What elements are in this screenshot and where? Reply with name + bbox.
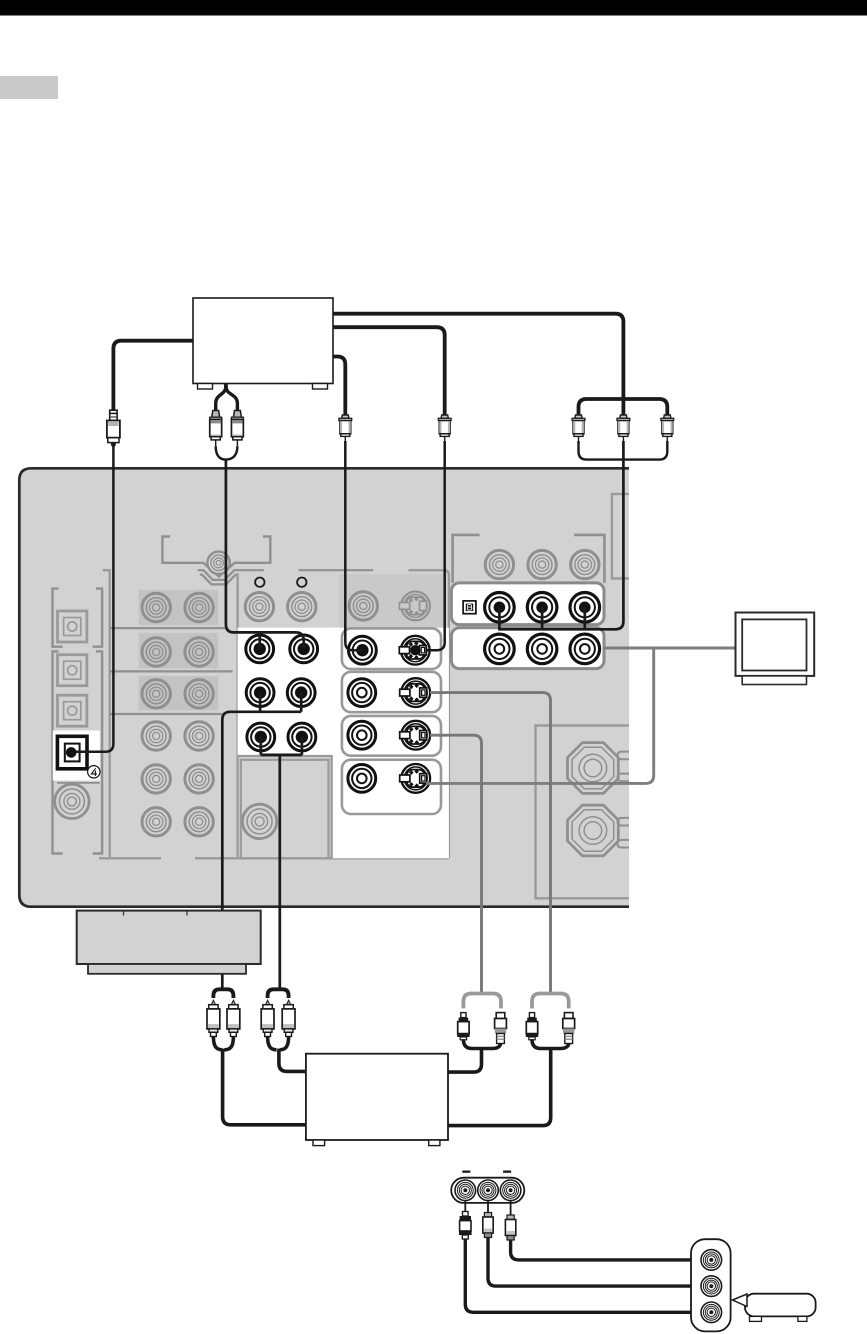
component group box B (connected) (451, 583, 604, 625)
wire: DVD component video cable to triple plug group (333, 314, 623, 416)
wire: adapter plug2 to right plate jack2 (488, 1238, 711, 1286)
AV group row1 jacks (connected) (349, 636, 377, 664)
sub pre-out gray jack left (55, 784, 89, 818)
darker area behind left input grid row 2 (139, 633, 219, 669)
wire: monitor out to TV (604, 647, 736, 650)
chevron channel upper line (198, 570, 264, 580)
pair 2 plugs (261, 1000, 274, 1036)
adapter plug 3 (505, 1215, 515, 1240)
DVD player left foot (198, 384, 213, 390)
pair 1 bracket (213, 989, 233, 998)
wire: adapter plug3 to right plate jack1 (511, 1240, 711, 1260)
wire: DVD audio pair stub from box bottom (224, 384, 228, 391)
center section left frame line (236, 573, 238, 858)
terminal B tabs (618, 818, 630, 826)
audio plug L (down) (210, 411, 222, 447)
wire: pair1 plugs merge and run to VCR (213, 1037, 306, 1125)
VCR box (306, 1054, 448, 1140)
right jack plate (691, 1239, 731, 1331)
AV group row3 jacks (348, 721, 376, 749)
center gray jack pair above DVD audio (245, 593, 273, 621)
wire: monitor out branch to s-video row4 (426, 648, 654, 783)
coaxial digital jack (207, 552, 229, 574)
AV group box row4 (342, 760, 441, 814)
wire: split to left audio plug (216, 386, 226, 411)
left digital-in bracket upper right (93, 589, 103, 647)
circled 4 label (88, 766, 100, 778)
speaker terminal octagon B (568, 805, 619, 856)
separator under optical (57, 782, 100, 784)
speaker terminal octagon A (568, 743, 619, 794)
left column frame line (103, 570, 110, 858)
wire: component cable into B jacks (499, 441, 623, 629)
left digital-in bracket upper left (53, 589, 63, 647)
wire: audio pair pin loop (216, 446, 238, 459)
AV group box row1 (DVD in, connected) (342, 628, 441, 669)
component plug Pb (617, 415, 630, 441)
wire: DVD optical out, left heavy cable (113, 341, 193, 411)
optical plug (down) on left cable (107, 410, 120, 446)
group 4 gray bracket (532, 994, 569, 1009)
gray component jack row (485, 550, 513, 578)
wire: adapter plug1 to right plate jack3 (465, 1239, 711, 1312)
optical jack black (connected) (57, 736, 87, 769)
optical square jacks column (57, 611, 86, 726)
wire: triple plug bottom loop bracket (579, 441, 668, 460)
wire: DVD video out cable (333, 357, 345, 416)
adapter plug 1 (459, 1212, 472, 1240)
VCR right foot (429, 1140, 440, 1146)
adapter jacks (455, 1180, 476, 1201)
balloon feet (750, 1316, 762, 1321)
component plug Pr (661, 415, 674, 441)
group 3 gray bracket (463, 994, 501, 1009)
receiver rear panel body (18, 467, 629, 908)
wire: group3 loop and run to VCR (448, 1039, 501, 1072)
center separator segment (299, 569, 374, 571)
wire: triple plug top bracket (579, 399, 668, 416)
darker area behind DVD gray jack row (339, 574, 446, 628)
terminal A tabs (618, 752, 630, 760)
balloon device box (745, 1294, 816, 1317)
section bottom line (99, 857, 161, 859)
wire: s-video row2 to VCR group4 (430, 693, 551, 994)
balloon pointer (733, 1294, 748, 1307)
VCR left foot (313, 1140, 325, 1146)
left digital-in bracket lower left (53, 651, 63, 853)
AV group row4 jacks (348, 765, 376, 793)
DVD player right foot (313, 384, 328, 390)
left digital-in bracket lower right (93, 651, 103, 853)
label B (463, 601, 476, 614)
video plug (down) (339, 415, 352, 441)
subwoofer bottom bar (88, 964, 246, 974)
leader lines to plugs (465, 1201, 510, 1216)
chevron channel lower line (200, 574, 236, 584)
minus mark 1 (462, 1171, 470, 1173)
wire: group4 loop and run to VCR (448, 1039, 569, 1125)
separator line row1/2 (110, 627, 226, 629)
component B jacks (connected) (485, 593, 515, 623)
wire: drop to Pr jack (583, 607, 586, 629)
separator line row2/3 (110, 670, 233, 672)
component monitor out jacks (485, 634, 515, 664)
gray video jack row above AV groups (349, 592, 377, 620)
audio plug R (down) (231, 411, 243, 447)
component section frame right (574, 535, 604, 583)
minus mark 2 (503, 1171, 511, 1173)
top black header bar (0, 0, 867, 16)
top center bracket around coaxial jack (162, 537, 270, 577)
wire: VCR audio row3 to bottom pair 2 (261, 737, 302, 991)
AV group box row2 (342, 672, 441, 712)
antenna section frame (536, 726, 629, 899)
s-video cable plug (down) (438, 415, 451, 441)
DVD player box (193, 298, 333, 389)
TV monitor (736, 613, 815, 685)
wire: drop to Pb jack (541, 607, 544, 629)
gray page tab (0, 76, 58, 99)
white highlight behind optical jack (53, 731, 100, 781)
darker area behind left input grid row 3 (139, 676, 219, 710)
subwoofer protrusion box (77, 911, 261, 964)
wire: video cable into video jack (345, 441, 362, 650)
wire: s-video cable into s-video jack (427, 441, 445, 650)
component group box monitor out (451, 628, 604, 669)
wire: split to right audio plug (226, 386, 238, 411)
wire: audio pair cable into DVD audio L/R row1 (226, 460, 304, 649)
wire: drop to left audio jack (258, 632, 261, 649)
right plate jacks (701, 1250, 722, 1271)
AV group box row3 (342, 716, 441, 756)
group 3 plugs (457, 1013, 469, 1040)
DVD audio in black jacks 2x3 (246, 635, 318, 751)
wire: pair2 plugs merge and run to VCR (268, 1037, 306, 1072)
gray jack in lower center frame (242, 804, 276, 838)
white column behind AV groups (332, 628, 449, 859)
left input grid gray jacks (142, 593, 213, 836)
center section right frame line (408, 570, 449, 858)
right edge bracket (612, 494, 629, 579)
component adapter plate (451, 1178, 524, 1203)
AV group row2 jacks (348, 679, 376, 707)
component section frame left (453, 535, 480, 583)
pair 2 bracket (268, 989, 289, 998)
wire: DVD s-video out cable (333, 327, 445, 415)
wire: optical cable inside panel to optical jack (76, 443, 113, 752)
group 4 plugs (526, 1013, 538, 1040)
white highlight block behind DVD audio jacks (238, 628, 340, 756)
wire: s-video row3 to VCR group3 (430, 735, 482, 993)
lower center double frame (238, 756, 332, 858)
wire: VCR audio row2 to bottom pair 1 (222, 693, 301, 991)
adapter plug 2 (483, 1213, 493, 1238)
pair 1 plugs (207, 1000, 220, 1036)
component plug Y (572, 415, 585, 441)
separator line row3/4 (110, 713, 223, 715)
screw hole circles (255, 578, 264, 587)
darker area behind left input grid row 1 (139, 590, 219, 626)
